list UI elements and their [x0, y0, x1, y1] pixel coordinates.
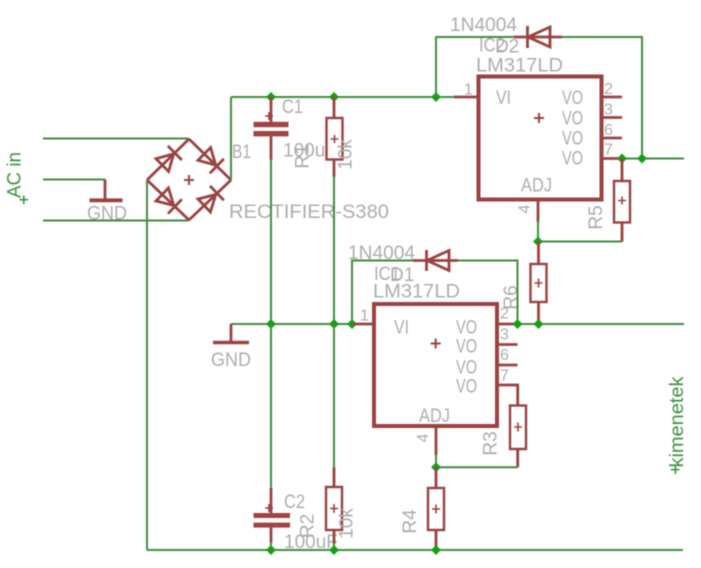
wire C2 to bottom rail	[270, 542, 272, 550]
node cross kimenetek origin	[671, 466, 680, 475]
bridge diode TL	[156, 154, 174, 172]
node junction input rail C	[266, 319, 276, 329]
svg-text:LM317LD: LM317LD	[476, 56, 563, 77]
svg-text:2: 2	[500, 306, 509, 323]
svg-text:3: 3	[604, 102, 613, 119]
svg-text:VO: VO	[456, 358, 477, 379]
svg-text:2: 2	[604, 81, 613, 98]
IC2 pin 1	[454, 96, 478, 99]
bridge edge TL	[147, 139, 189, 180]
diode D2	[514, 26, 562, 48]
node junction ADJ1 R4	[431, 462, 441, 472]
node junction output D1 loop	[513, 319, 523, 329]
svg-text:R1: R1	[293, 144, 314, 168]
op-amp IC1 LM317LD box	[374, 304, 497, 426]
node junction top rail C1	[266, 92, 276, 102]
ground GND2	[211, 324, 251, 371]
wire IC2 ADJ to R5 bottom	[538, 220, 622, 242]
wire top rail	[231, 96, 454, 98]
bridge edge BR	[189, 180, 231, 220]
wire AC top left	[43, 138, 189, 140]
svg-text:VO: VO	[456, 337, 477, 358]
node cross AC in origin	[20, 196, 29, 205]
resistor R2	[326, 468, 342, 545]
IC2 pin 3	[602, 116, 622, 119]
wire bridge right riser	[230, 97, 232, 180]
svg-text:kimenetek: kimenetek	[667, 376, 688, 468]
node junction ADJ2 R6	[533, 237, 543, 247]
op-amp IC2 LM317LD box	[479, 77, 602, 200]
diode D1 loop wires	[352, 261, 518, 325]
node junction bottom rail R4	[431, 545, 441, 555]
IC2 ADJ pin 4	[537, 200, 540, 222]
svg-text:C2: C2	[284, 492, 305, 513]
wire R1 to mid rail	[333, 176, 335, 324]
node junction pin7 R5	[617, 154, 627, 164]
wire R2 to bottom rail	[333, 543, 335, 550]
svg-text:VO: VO	[456, 377, 477, 398]
wire R branch to R2	[333, 324, 335, 468]
svg-text:10k: 10k	[336, 139, 357, 170]
resistor R6	[531, 242, 547, 325]
IC1 pin 6	[497, 364, 518, 367]
resistor R4	[428, 467, 444, 550]
node junction input rail R	[329, 319, 339, 329]
wire C branch to C2	[270, 324, 272, 489]
resistor R3	[510, 406, 526, 468]
IC1 pin 3	[497, 343, 518, 346]
capacitor C2	[254, 488, 291, 543]
node junction top rail R1	[329, 92, 339, 102]
svg-text:VO: VO	[562, 88, 583, 109]
svg-text:1: 1	[464, 82, 473, 99]
resistor R5	[614, 159, 630, 242]
svg-text:VO: VO	[562, 109, 583, 130]
bridge diode TR	[198, 148, 216, 166]
svg-text:GND: GND	[211, 350, 251, 371]
wire IC2 pin7 output	[622, 158, 684, 160]
IC2 pin 7	[602, 157, 622, 160]
svg-text:4: 4	[517, 204, 534, 213]
svg-text:VO: VO	[456, 318, 477, 339]
svg-text:R5: R5	[586, 205, 607, 229]
svg-text:1: 1	[360, 308, 369, 325]
svg-text:B1: B1	[232, 142, 251, 163]
svg-text:VI: VI	[394, 318, 409, 339]
svg-text:6: 6	[500, 347, 509, 364]
node junction pin7 D2 loop	[637, 154, 647, 164]
IC1 ADJ pin 4	[435, 426, 438, 455]
svg-text:7: 7	[604, 142, 613, 159]
node junction input rail D1 loop	[347, 319, 357, 329]
IC1 pin 7 hook to R3	[497, 385, 518, 406]
bridge edge BL	[147, 180, 189, 220]
svg-text:VO: VO	[562, 149, 583, 170]
svg-text:10k: 10k	[337, 508, 358, 539]
node junction top rail D2 loop	[431, 92, 441, 102]
bridge diode BL	[156, 188, 174, 206]
svg-text:ADJ: ADJ	[521, 176, 552, 197]
svg-text:3: 3	[500, 327, 509, 344]
diode D1	[413, 250, 458, 271]
wire C1 to mid rail	[270, 159, 272, 324]
svg-text:4: 4	[415, 433, 432, 442]
node junction output R6	[534, 319, 544, 329]
svg-text:1N4004: 1N4004	[450, 15, 517, 36]
wire left drop rail	[146, 180, 148, 550]
svg-text:D2: D2	[495, 37, 519, 58]
svg-text:LM317LD: LM317LD	[373, 282, 460, 303]
svg-text:VO: VO	[562, 129, 583, 150]
wire AC mid left	[43, 179, 105, 181]
wire bottom rail	[147, 549, 683, 551]
ground GND1	[87, 180, 127, 225]
wire IC1 input rail	[231, 323, 353, 325]
bridge diode BR	[198, 195, 216, 213]
svg-text:ADJ: ADJ	[419, 406, 450, 427]
svg-text:R4: R4	[400, 509, 421, 534]
svg-text:VI: VI	[496, 88, 511, 109]
capacitor C1	[254, 97, 289, 160]
IC1 pin 1	[353, 323, 374, 326]
wire IC1 ADJ to R3 bottom	[436, 454, 518, 467]
IC2 pin 2	[602, 96, 622, 99]
svg-text:GND: GND	[87, 204, 127, 225]
svg-text:1N4004: 1N4004	[348, 243, 415, 264]
svg-text:RECTIFIER-S380: RECTIFIER-S380	[229, 202, 389, 223]
node junction bottom rail C2	[266, 545, 276, 555]
IC1 pin 2	[497, 323, 518, 326]
svg-text:7: 7	[500, 368, 509, 385]
svg-text:R2: R2	[298, 514, 319, 538]
diode D2 loop wires	[436, 37, 642, 159]
IC2 pin 6	[602, 137, 622, 140]
wire IC1 output rail	[518, 323, 685, 325]
node junction bottom rail R2	[329, 545, 339, 555]
svg-text:6: 6	[604, 122, 613, 139]
bridge center cross	[184, 175, 194, 185]
IC1 center cross	[431, 339, 441, 349]
svg-text:C1: C1	[282, 97, 303, 118]
wire AC bottom left	[43, 220, 189, 222]
resistor R1	[327, 97, 343, 177]
svg-text:R3: R3	[481, 431, 502, 455]
IC2 center cross	[534, 113, 544, 123]
rectifier B1 bridge	[147, 139, 231, 220]
svg-text:AC in: AC in	[5, 152, 26, 198]
bridge edge TR	[189, 139, 231, 180]
